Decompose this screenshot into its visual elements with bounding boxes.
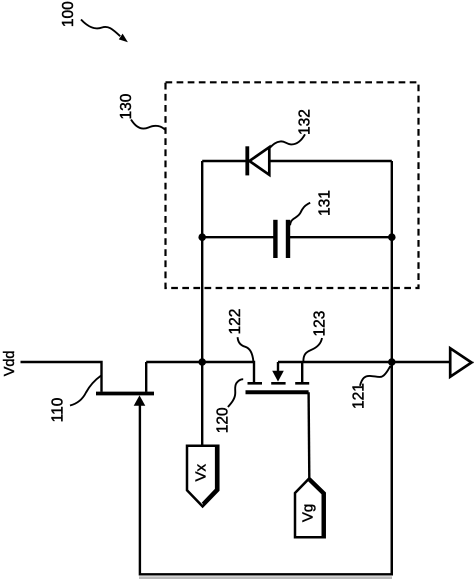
leader from 123 — [303, 338, 322, 361]
wire: right gate lead 123 — [301, 362, 303, 382]
svg-text:Vdd: Vdd — [2, 350, 18, 376]
arrow gate of 110 — [134, 395, 146, 405]
node: junction dot right-main (node 121) — [388, 358, 396, 366]
wire: Vdd to transistor 110 — [21, 362, 102, 392]
transistor 120 channel bar — [246, 390, 309, 394]
transistor 120 gate bar right — [295, 382, 309, 385]
scan shadow under bottom wire — [139, 576, 392, 579]
node: junction dot right-capacitor — [388, 233, 396, 241]
wire: left vertical (box to Vx) — [201, 161, 203, 446]
wire: capacitor branch right — [290, 236, 392, 238]
leader from 130 — [131, 120, 165, 130]
leader from 132 — [270, 134, 305, 148]
svg-text:Vg: Vg — [299, 504, 316, 522]
wire: diode branch right — [269, 160, 392, 162]
svg-text:121: 121 — [351, 383, 368, 409]
leader from 122 — [238, 337, 254, 361]
arrow into channel of 120 — [272, 362, 284, 382]
svg-text:122: 122 — [227, 309, 244, 335]
leader from 121 — [360, 366, 390, 386]
transistor 110 — [96, 362, 154, 394]
wire: feedback loop — [140, 362, 392, 574]
wire: main wire right segment to output — [278, 361, 450, 363]
output buffer triangle — [450, 348, 471, 376]
svg-text:123: 123 — [312, 311, 329, 337]
node: junction dot left-capacitor — [198, 233, 206, 241]
wire stub right of output triangle — [472, 361, 474, 363]
dashed box 130 — [166, 82, 419, 288]
transistor 120 gate bar left — [248, 382, 263, 385]
svg-text:120: 120 — [215, 407, 232, 433]
svg-text:131: 131 — [317, 190, 334, 216]
svg-text:110: 110 — [50, 397, 67, 422]
flag Vg — [295, 478, 325, 537]
svg-text:Vx: Vx — [193, 464, 210, 482]
leader arrow from 100 — [81, 20, 128, 43]
leader from 131 — [290, 203, 310, 226]
transistor 120 gate bar middle — [271, 382, 285, 385]
wire: right vertical (box to bottom feedback) — [391, 161, 393, 574]
leader from 110 — [70, 375, 101, 405]
wire: Vg lead — [307, 392, 310, 478]
leader from 120 — [228, 379, 243, 407]
diode 132 — [247, 146, 269, 175]
node: junction dot left-main — [198, 358, 206, 366]
wire: 110 drain to gate 122 of 120 — [146, 362, 254, 382]
svg-text:132: 132 — [297, 109, 314, 135]
svg-text:130: 130 — [118, 93, 135, 119]
wire: capacitor branch left — [202, 236, 273, 238]
wire: diode branch left — [202, 160, 246, 162]
capacitor 131 — [275, 220, 288, 258]
svg-text:100: 100 — [60, 1, 77, 27]
flag Vx — [187, 446, 218, 507]
